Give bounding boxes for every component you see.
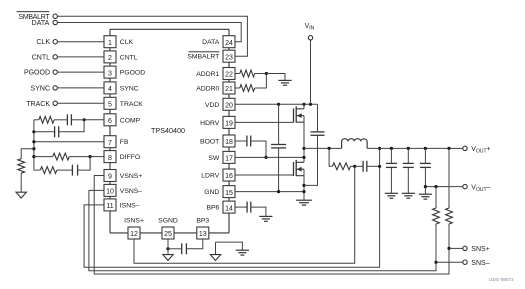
U1 part number label TPS40400 [151,126,185,135]
wire pin 6 COMP to node [84,119,104,121]
pin 2 label CNTL [120,54,138,61]
svg-text:SYNC: SYNC [31,85,50,92]
svg-text:5: 5 [108,102,112,109]
wire PGOOD terminal to pin 3 [57,71,104,73]
svg-text:SNS+: SNS+ [471,246,489,253]
wire resistor to ground [20,173,22,192]
pin 2 box (CNTL) [104,51,116,63]
wire pin 22 ADDR1 [235,73,240,75]
capacitor DIFFO lower branch [72,157,90,176]
capacitor DCR sense [355,161,380,172]
pin 24 box (DATA) [223,36,235,48]
svg-text:1: 1 [108,40,112,47]
svg-text:7: 7 [108,140,112,147]
svg-text:16: 16 [225,173,233,180]
node output cap 3 junction [424,147,427,150]
svg-text:SGND: SGND [158,218,178,225]
wire DATA terminal to pin 24 [57,23,241,42]
pin 16 label LDRV [201,173,219,180]
node rail-parallel cap junction [32,130,35,133]
pin 12 box [128,227,140,239]
terminal DATA [32,20,58,27]
pin 13 box [197,227,209,239]
node VDD bypass junction [277,103,280,106]
svg-text:CNTL: CNTL [120,54,138,61]
svg-text:10: 10 [106,189,114,196]
wire CLK terminal to pin 1 [57,41,104,43]
svg-text:CLK: CLK [36,39,50,46]
pin 16 box (LDRV) [223,169,235,181]
resistor DIFFO lower branch [34,167,73,174]
svg-text:BP6: BP6 [206,205,219,212]
svg-text:SMBALRT: SMBALRT [187,54,219,61]
pin 25 box [162,227,174,239]
node divider branch junction [32,147,35,150]
ground (signal) SGND [163,249,173,261]
wire Q1 source rail to SW [303,116,305,163]
pin 14 box (BP6) [223,201,235,213]
pin 23 box (SMBALRT) [223,50,235,62]
wire node to pin 8 DIFFO [90,156,104,158]
svg-text:21: 21 [225,86,233,93]
node output cap 2 junction [407,147,410,150]
node SNS+ junction [447,247,450,250]
ground tie signal-to-power [210,242,249,260]
wire TRACK terminal to pin 5 [57,102,104,104]
resistor FB divider to ground [18,159,25,174]
wire Q2 source rail to ground [303,169,305,200]
capacitor comp series (top branch) [54,114,84,125]
node VOUT+ to sense divider [447,147,450,150]
svg-text:DATA: DATA [202,39,220,46]
wire HDRV pin 19 to Q1 gate [235,121,294,123]
ground (earth) VOUT- [419,194,432,199]
pin 24 label DATA [202,39,220,46]
pin 19 label HDRV [200,120,220,127]
wire ADDR junction to ground [266,74,285,81]
node VOUT- at cap 3 [424,185,427,188]
node VOUT- to sense divider [434,185,437,188]
node ISNS+ sense junction [353,165,356,168]
wire branch to divider resistor [21,149,34,159]
terminal CNTL [32,54,58,61]
svg-text:TRACK: TRACK [120,101,144,108]
svg-text:TRACK: TRACK [26,101,50,108]
resistor DCR sense [332,163,354,170]
svg-text:ISNS–: ISNS– [120,202,140,209]
svg-text:24: 24 [225,40,233,47]
svg-text:19: 19 [225,121,233,128]
capacitor comp parallel [34,120,84,138]
wire sense cap node up to VOUT+ rail [379,148,381,166]
svg-text:18: 18 [225,139,233,146]
svg-text:ADDR1: ADDR1 [196,71,219,78]
wire resistor to SNS- node [435,224,437,262]
svg-text:9: 9 [108,174,112,181]
svg-text:DATA: DATA [32,20,50,27]
resistor comp series (top branch) [34,116,54,123]
capacitor output 1 [386,148,397,193]
pin 5 label TRACK [120,101,144,108]
node COMP junction [83,118,86,121]
svg-text:DIFFO: DIFFO [120,154,140,161]
capacitor BP3 bypass [168,239,203,254]
ground (earth) ADDR [278,80,291,85]
wire SW node to inductor [304,147,342,149]
wire VSNS- pin 10 to SNS- node [89,190,436,270]
svg-text:SW: SW [208,155,220,162]
node GND bypass junction [277,190,280,193]
svg-text:FB: FB [120,139,129,146]
ground (earth) output cap 1 [385,193,398,198]
pin 3 box (PGOOD) [104,66,116,78]
pin 23 label SMBALRT [187,52,219,61]
wire pin 21 ADDR0 [235,87,240,89]
wire VOUT- rail [425,186,462,188]
transistor Q2 low-side NMOS [294,160,305,176]
wire sense branch down [329,148,332,166]
wire LDRV pin 16 to Q2 gate [235,174,294,176]
svg-text:PGOOD: PGOOD [24,70,50,77]
node Q2 source - GND pin junction [302,190,305,193]
node DIFFO rail junction [32,155,35,158]
svg-text:17: 17 [225,156,233,163]
svg-text:4: 4 [108,86,112,93]
pin 7 label FB [120,139,129,146]
terminal VOUT+ [463,146,491,155]
terminal SNS- [463,260,490,267]
svg-text:TPS40400: TPS40400 [151,126,185,135]
terminal SYNC [31,85,58,92]
svg-text:11: 11 [106,203,113,210]
svg-text:UDG-09073: UDG-09073 [489,277,514,282]
pin 18 label BOOT [200,139,219,146]
wire VIN terminal down [310,40,312,104]
svg-text:22: 22 [225,72,233,79]
wire VDD rail pin 20 to input node [235,103,318,105]
wire SW pin 17 to switch node [235,156,304,158]
svg-text:6: 6 [108,118,112,125]
resistor SNS- remote sense [433,208,440,224]
terminal VOUT- [463,184,491,193]
pin 22 label ADDR1 [196,71,219,78]
wire CNTL terminal to pin 2 [57,56,104,58]
svg-text:COMP: COMP [120,117,141,124]
pin 10 box (VSNS–) [104,184,116,196]
capacitor input [304,104,325,185]
wire SNS- to terminal [436,261,463,263]
ground (earth) BP6 [259,216,272,221]
wire VOUT+ down to resistor [448,148,450,208]
pin 21 label ADDR0 [196,86,219,93]
svg-text:ADDR0: ADDR0 [196,86,219,93]
pin 19 box (HDRV) [223,116,235,128]
terminal CLK [36,39,57,46]
pin 1 box (CLK) [104,36,116,48]
svg-text:VOUT–: VOUT– [471,184,490,193]
svg-text:HDRV: HDRV [200,120,220,127]
svg-text:VDD: VDD [205,102,219,109]
resistor ADDR0 [240,74,267,92]
pin 14 label BP6 [206,205,219,212]
capacitor output 2 [403,148,414,193]
pin 12 label ISNS+ [124,218,144,225]
pin 17 label SW [208,155,220,162]
pin 8 box (DIFFO) [104,151,116,163]
wire VSNS+ pin 9 to SNS+ node [94,176,449,275]
svg-text:13: 13 [199,231,207,238]
pin 4 box (SYNC) [104,82,116,94]
svg-text:PGOOD: PGOOD [120,70,145,77]
transistor Q1 high-side NMOS [294,106,305,122]
svg-text:20: 20 [225,103,233,110]
node ADDR junction [265,72,268,75]
wire GND pin 15 to power ground [235,191,304,193]
svg-text:CNTL: CNTL [32,54,50,61]
wire SMBALRT terminal to pin 23 [57,16,247,56]
terminal VIN [305,23,315,40]
wire SNS+ to terminal [449,247,463,249]
pin 5 box (TRACK) [104,97,116,109]
svg-text:ISNS+: ISNS+ [124,218,144,225]
wire VOUT- down to resistor [435,187,437,208]
ground (signal) below divider resistor [16,192,26,198]
svg-text:SNS–: SNS– [471,260,489,267]
node Q1 drain junction [302,103,305,106]
op-amp U1 TPS40400 controller body outline [110,29,229,233]
ground (earth) output cap 2 [402,193,415,198]
node SNS- junction [434,261,437,264]
node BOOT-SW junction [264,156,267,159]
svg-text:25: 25 [164,231,172,238]
pin 6 box (COMP) [104,114,116,126]
svg-text:15: 15 [225,190,233,197]
figure number UDG-09073 [489,277,514,282]
node SGND junction [166,247,169,250]
capacitor VDD bypass [271,104,286,191]
pin 6 label COMP [120,117,141,124]
pin 22 box (ADDR1) [223,68,235,80]
node ISNS- sense junction [378,165,381,168]
wire left compensation rail [33,120,35,170]
svg-text:14: 14 [225,205,233,212]
inductor L1 output [342,139,368,149]
resistor DIFFO feedback [34,153,90,160]
pin 20 label VDD [205,102,219,109]
pin 15 box (GND) [223,186,235,198]
svg-text:GND: GND [204,189,219,196]
terminal TRACK [26,101,57,108]
pin 3 label PGOOD [120,70,145,77]
pin 21 box (ADDR0) [223,82,235,94]
pin 17 box (SW) [223,151,235,163]
wire ISNS- pin 11 to output sense node [84,166,380,267]
node SW pin junction [302,156,305,159]
svg-text:2: 2 [108,55,112,62]
pin 13 label BP3 [196,218,209,225]
capacitor BOOT [235,136,266,158]
pin 20 box (VDD) [223,98,235,110]
pin 25 label SGND [158,218,178,225]
pin 11 box (ISNS–) [104,199,116,211]
pin 8 label DIFFO [120,154,140,161]
svg-text:VOUT+: VOUT+ [471,146,490,155]
wire VOUT+ rail [367,147,463,149]
wire Q1 drain to VIN node [303,104,305,109]
pin 11 label ISNS– [120,202,140,209]
pin 9 label VSNS+ [120,173,143,180]
ground (earth) power stage [296,200,312,205]
pin 10 label VSNS– [120,188,143,195]
svg-text:8: 8 [108,155,112,162]
resistor ADDR1 [240,70,267,77]
svg-text:23: 23 [225,54,233,61]
node output cap 1 junction [390,147,393,150]
terminal PGOOD [24,70,57,77]
svg-text:VSNS–: VSNS– [120,188,143,195]
svg-text:CLK: CLK [120,39,134,46]
node DCR sense tap [328,147,331,150]
svg-text:LDRV: LDRV [201,173,219,180]
wire pin 25 SGND down [167,239,169,249]
capacitor output 3 [420,148,431,194]
node Q2 source - input cap junction [302,184,305,187]
pin 1 label CLK [120,39,134,46]
wire pin 7 FB to rail [34,141,104,143]
svg-text:BOOT: BOOT [200,139,219,146]
node sense-rail junction [378,147,381,150]
pin 15 label GND [204,189,219,196]
svg-text:12: 12 [130,231,138,238]
pin 7 box (FB) [104,136,116,148]
wire ISNS+ pin 12 to DCR sense node [134,166,355,263]
capacitor BP6 bypass [235,202,266,217]
pin 18 box (BOOT) [223,135,235,147]
svg-text:BP3: BP3 [196,218,209,225]
svg-text:SYNC: SYNC [120,85,139,92]
node SW-inductor junction [302,147,305,150]
node DIFFO junction [89,155,92,158]
wire SYNC terminal to pin 4 [57,87,104,89]
svg-text:3: 3 [108,70,112,77]
svg-text:VIN: VIN [305,23,315,32]
svg-text:VSNS+: VSNS+ [120,173,143,180]
wire resistor to SNS+ node [448,224,450,248]
pin 9 box (VSNS+) [104,170,116,182]
resistor SNS+ remote sense [446,208,453,224]
terminal SNS+ [463,246,490,253]
node VIN junction [309,103,312,106]
node FB junction [32,140,35,143]
pin 4 label SYNC [120,85,139,92]
terminal SMBALRT [17,12,58,21]
